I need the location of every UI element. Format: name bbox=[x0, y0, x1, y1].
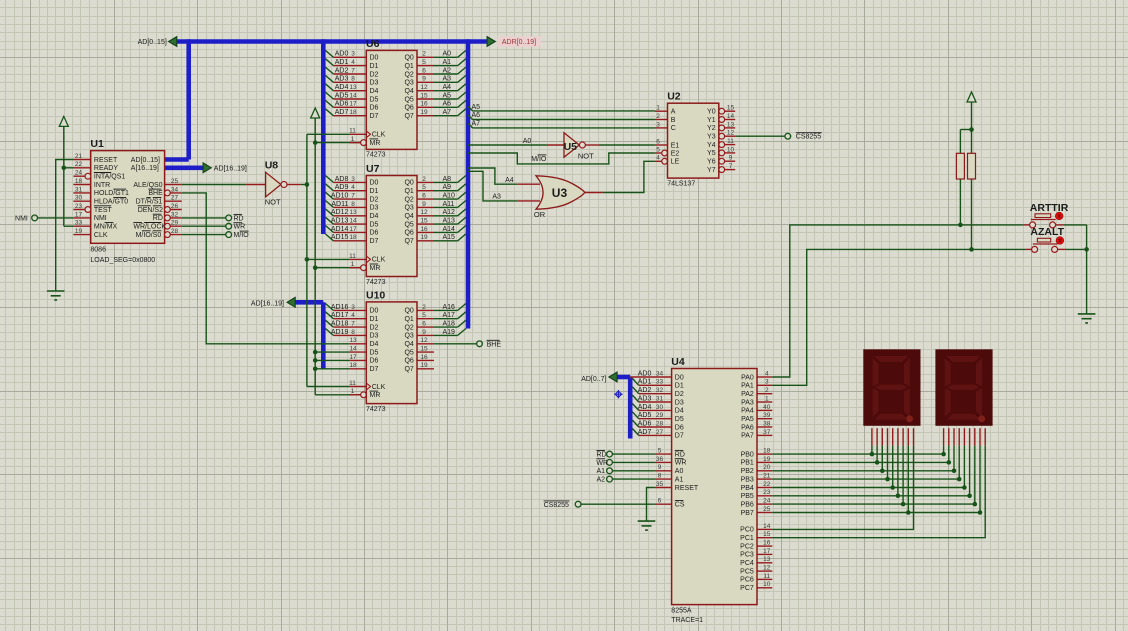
svg-text:35: 35 bbox=[656, 481, 664, 488]
svg-text:12: 12 bbox=[420, 337, 428, 344]
svg-text:5: 5 bbox=[422, 312, 426, 319]
svg-text:BHE: BHE bbox=[487, 341, 502, 348]
svg-text:2: 2 bbox=[422, 176, 426, 183]
svg-text:8086: 8086 bbox=[90, 247, 106, 254]
svg-text:31: 31 bbox=[656, 395, 664, 402]
svg-text:39: 39 bbox=[763, 412, 771, 419]
svg-text:RD: RD bbox=[675, 451, 685, 458]
svg-text:16: 16 bbox=[763, 540, 771, 547]
svg-text:Q7: Q7 bbox=[404, 238, 413, 245]
svg-text:AD19: AD19 bbox=[331, 329, 349, 336]
svg-text:ALE/QS0: ALE/QS0 bbox=[133, 182, 162, 189]
svg-text:D7: D7 bbox=[370, 113, 379, 120]
svg-text:37: 37 bbox=[763, 429, 771, 436]
svg-text:D6: D6 bbox=[675, 424, 684, 431]
svg-text:M/IO: M/IO bbox=[531, 156, 547, 163]
svg-text:A: A bbox=[671, 109, 676, 116]
svg-text:40: 40 bbox=[763, 404, 771, 411]
svg-text:A0: A0 bbox=[443, 51, 452, 58]
svg-text:4: 4 bbox=[351, 312, 355, 319]
svg-text:AD8: AD8 bbox=[335, 176, 349, 183]
svg-text:A1: A1 bbox=[443, 59, 452, 66]
svg-text:25: 25 bbox=[171, 178, 179, 185]
svg-text:C: C bbox=[671, 125, 676, 132]
svg-text:4: 4 bbox=[765, 370, 769, 377]
svg-text:A19: A19 bbox=[443, 329, 456, 336]
svg-text:A7: A7 bbox=[472, 121, 481, 128]
svg-text:24: 24 bbox=[75, 170, 83, 177]
svg-text:7: 7 bbox=[351, 67, 355, 74]
svg-text:27: 27 bbox=[171, 195, 179, 202]
svg-text:74LS137: 74LS137 bbox=[667, 180, 695, 187]
svg-text:READY: READY bbox=[94, 165, 118, 172]
svg-text:MN/MX: MN/MX bbox=[94, 224, 118, 231]
svg-text:RD: RD bbox=[596, 452, 606, 459]
svg-text:A2: A2 bbox=[596, 477, 605, 484]
svg-text:A11: A11 bbox=[443, 201, 455, 208]
svg-text:11: 11 bbox=[349, 128, 356, 135]
svg-text:PB5: PB5 bbox=[741, 493, 754, 500]
svg-text:U6: U6 bbox=[366, 38, 380, 50]
svg-text:A2: A2 bbox=[443, 67, 452, 74]
svg-text:AD5: AD5 bbox=[335, 92, 349, 99]
svg-text:2: 2 bbox=[422, 51, 426, 58]
svg-text:NMI: NMI bbox=[15, 215, 28, 222]
svg-text:Q7: Q7 bbox=[404, 366, 413, 373]
svg-text:4: 4 bbox=[656, 155, 660, 162]
svg-text:D0: D0 bbox=[370, 308, 379, 315]
svg-text:Y2: Y2 bbox=[707, 125, 716, 132]
svg-text:RESET: RESET bbox=[675, 485, 699, 492]
svg-text:A5: A5 bbox=[443, 92, 452, 99]
svg-text:AD0: AD0 bbox=[335, 51, 349, 58]
svg-text:INTR: INTR bbox=[94, 182, 110, 189]
svg-text:PC4: PC4 bbox=[740, 560, 754, 567]
svg-text:D1: D1 bbox=[370, 316, 379, 323]
svg-text:21: 21 bbox=[763, 473, 771, 480]
svg-text:AD2: AD2 bbox=[335, 67, 349, 74]
svg-text:16: 16 bbox=[420, 226, 428, 233]
svg-text:A[16..19]: A[16..19] bbox=[131, 165, 159, 172]
svg-text:MR: MR bbox=[370, 392, 381, 399]
svg-text:Q1: Q1 bbox=[404, 188, 413, 195]
svg-text:PC2: PC2 bbox=[740, 543, 754, 550]
svg-text:11: 11 bbox=[727, 138, 734, 145]
svg-text:12: 12 bbox=[727, 130, 735, 137]
svg-text:3: 3 bbox=[351, 304, 355, 311]
svg-text:9: 9 bbox=[422, 201, 426, 208]
svg-text:A8: A8 bbox=[443, 176, 452, 183]
svg-text:14: 14 bbox=[727, 113, 735, 120]
svg-text:A15: A15 bbox=[443, 234, 456, 241]
svg-text:Q7: Q7 bbox=[404, 113, 413, 120]
svg-text:CS: CS bbox=[675, 502, 685, 509]
svg-text:PB0: PB0 bbox=[741, 451, 754, 458]
svg-text:HLDA/GT0: HLDA/GT0 bbox=[94, 199, 128, 206]
svg-text:AD[0..15]: AD[0..15] bbox=[131, 157, 160, 164]
svg-text:D1: D1 bbox=[370, 63, 379, 70]
svg-text:A14: A14 bbox=[443, 226, 456, 233]
svg-text:A17: A17 bbox=[443, 312, 456, 319]
svg-text:RESET: RESET bbox=[94, 157, 118, 164]
svg-text:D0: D0 bbox=[370, 180, 379, 187]
svg-text:A6: A6 bbox=[443, 101, 452, 108]
svg-text:Q6: Q6 bbox=[404, 230, 413, 237]
svg-text:AD5: AD5 bbox=[638, 412, 652, 419]
svg-text:Q2: Q2 bbox=[404, 196, 413, 203]
svg-text:3: 3 bbox=[765, 379, 769, 386]
svg-text:B: B bbox=[671, 117, 676, 124]
svg-text:A3: A3 bbox=[443, 76, 452, 83]
svg-text:Q6: Q6 bbox=[404, 105, 413, 112]
svg-text:NOT: NOT bbox=[265, 198, 281, 207]
svg-text:PC0: PC0 bbox=[740, 527, 754, 534]
svg-text:AD14: AD14 bbox=[331, 226, 349, 233]
svg-text:AD9: AD9 bbox=[335, 184, 349, 191]
svg-text:A16: A16 bbox=[443, 304, 456, 311]
svg-text:LOAD_SEG=0x0800: LOAD_SEG=0x0800 bbox=[90, 257, 155, 264]
svg-text:AD7: AD7 bbox=[335, 109, 349, 116]
svg-text:DT/R/S1: DT/R/S1 bbox=[136, 199, 163, 206]
svg-text:A13: A13 bbox=[443, 218, 456, 225]
svg-text:D3: D3 bbox=[370, 333, 379, 340]
svg-text:32: 32 bbox=[656, 387, 664, 394]
svg-text:28: 28 bbox=[656, 420, 664, 427]
svg-text:19: 19 bbox=[420, 109, 428, 116]
svg-text:AD3: AD3 bbox=[638, 395, 652, 402]
svg-text:Q0: Q0 bbox=[404, 55, 413, 62]
svg-text:17: 17 bbox=[349, 226, 357, 233]
svg-text:33: 33 bbox=[656, 379, 664, 386]
svg-text:E1: E1 bbox=[671, 142, 680, 149]
svg-text:18: 18 bbox=[763, 448, 771, 455]
svg-text:Q1: Q1 bbox=[404, 316, 413, 323]
svg-text:34: 34 bbox=[171, 186, 179, 193]
svg-text:D7: D7 bbox=[370, 238, 379, 245]
svg-text:Q3: Q3 bbox=[404, 80, 413, 87]
svg-text:LE: LE bbox=[671, 159, 680, 166]
svg-text:5: 5 bbox=[656, 146, 660, 153]
svg-text:AD2: AD2 bbox=[638, 387, 652, 394]
svg-text:D3: D3 bbox=[675, 399, 684, 406]
svg-text:NOT: NOT bbox=[578, 152, 594, 161]
svg-text:1: 1 bbox=[351, 261, 355, 268]
svg-text:D7: D7 bbox=[675, 433, 684, 440]
svg-text:2: 2 bbox=[422, 304, 426, 311]
svg-text:2: 2 bbox=[765, 387, 769, 394]
svg-text:CLK: CLK bbox=[94, 232, 108, 239]
svg-text:30: 30 bbox=[75, 195, 83, 202]
svg-text:PC1: PC1 bbox=[740, 535, 754, 542]
svg-text:A0: A0 bbox=[523, 138, 532, 145]
svg-text:7: 7 bbox=[351, 321, 355, 328]
svg-text:D5: D5 bbox=[370, 349, 379, 356]
svg-text:D3: D3 bbox=[370, 80, 379, 87]
svg-text:ADR[0..19]: ADR[0..19] bbox=[502, 39, 536, 46]
svg-text:23: 23 bbox=[75, 203, 83, 210]
svg-text:D0: D0 bbox=[370, 55, 379, 62]
svg-text:14: 14 bbox=[763, 523, 771, 530]
svg-text:AD15: AD15 bbox=[331, 234, 349, 241]
svg-text:D4: D4 bbox=[370, 88, 379, 95]
svg-text:A12: A12 bbox=[443, 209, 456, 216]
svg-text:PB6: PB6 bbox=[741, 501, 754, 508]
svg-text:AD[0..15]: AD[0..15] bbox=[138, 39, 167, 46]
svg-text:Y1: Y1 bbox=[707, 117, 716, 124]
svg-text:21: 21 bbox=[75, 153, 83, 160]
svg-text:29: 29 bbox=[656, 412, 664, 419]
svg-text:Y3: Y3 bbox=[707, 134, 716, 141]
svg-text:8: 8 bbox=[351, 76, 355, 83]
svg-text:8255A: 8255A bbox=[671, 607, 692, 614]
svg-text:Q5: Q5 bbox=[404, 96, 413, 103]
svg-text:PB4: PB4 bbox=[741, 485, 754, 492]
svg-text:Q5: Q5 bbox=[404, 221, 413, 228]
svg-text:AD1: AD1 bbox=[638, 379, 652, 386]
svg-text:1: 1 bbox=[351, 388, 355, 395]
svg-text:D4: D4 bbox=[370, 213, 379, 220]
svg-text:NMI: NMI bbox=[94, 215, 107, 222]
svg-text:23: 23 bbox=[763, 489, 771, 496]
svg-text:10: 10 bbox=[727, 146, 735, 153]
svg-text:Q3: Q3 bbox=[404, 205, 413, 212]
svg-text:22: 22 bbox=[75, 161, 83, 168]
svg-text:D6: D6 bbox=[370, 358, 379, 365]
svg-text:PB3: PB3 bbox=[741, 476, 754, 483]
svg-text:RD: RD bbox=[153, 215, 163, 222]
svg-text:74273: 74273 bbox=[366, 279, 386, 286]
svg-text:PC6: PC6 bbox=[740, 577, 754, 584]
svg-text:BHE: BHE bbox=[148, 190, 163, 197]
svg-text:D1: D1 bbox=[370, 188, 379, 195]
svg-text:CS8255: CS8255 bbox=[544, 502, 569, 509]
svg-text:AZALT: AZALT bbox=[1030, 226, 1064, 238]
svg-text:10: 10 bbox=[763, 581, 771, 588]
svg-text:Y6: Y6 bbox=[707, 159, 716, 166]
svg-text:PC5: PC5 bbox=[740, 568, 754, 575]
svg-text:D4: D4 bbox=[675, 408, 684, 415]
svg-text:AD13: AD13 bbox=[331, 218, 349, 225]
svg-text:AD0: AD0 bbox=[638, 370, 652, 377]
svg-text:AD16: AD16 bbox=[331, 304, 349, 311]
svg-text:D2: D2 bbox=[370, 71, 379, 78]
svg-text:U8: U8 bbox=[265, 160, 279, 172]
svg-text:D4: D4 bbox=[370, 341, 379, 348]
svg-text:U10: U10 bbox=[366, 289, 385, 301]
svg-text:A1: A1 bbox=[675, 476, 684, 483]
svg-text:A10: A10 bbox=[443, 193, 456, 200]
svg-text:AD[16..19]: AD[16..19] bbox=[251, 301, 284, 308]
svg-text:Y7: Y7 bbox=[707, 167, 716, 174]
svg-text:29: 29 bbox=[171, 220, 179, 227]
svg-text:D3: D3 bbox=[370, 205, 379, 212]
svg-text:PA7: PA7 bbox=[741, 433, 754, 440]
svg-text:U5: U5 bbox=[564, 141, 578, 153]
svg-text:OR: OR bbox=[534, 210, 546, 219]
svg-text:MR: MR bbox=[370, 140, 381, 147]
svg-text:1: 1 bbox=[765, 395, 769, 402]
svg-text:AD12: AD12 bbox=[331, 209, 349, 216]
svg-text:AD10: AD10 bbox=[331, 193, 349, 200]
svg-text:D2: D2 bbox=[370, 196, 379, 203]
svg-text:D2: D2 bbox=[370, 324, 379, 331]
svg-text:17: 17 bbox=[75, 211, 83, 218]
svg-text:9: 9 bbox=[729, 155, 733, 162]
svg-text:14: 14 bbox=[349, 92, 357, 99]
svg-text:CLK: CLK bbox=[372, 384, 386, 391]
svg-text:D5: D5 bbox=[370, 221, 379, 228]
svg-text:1: 1 bbox=[656, 105, 660, 112]
svg-text:8: 8 bbox=[658, 473, 662, 480]
svg-text:11: 11 bbox=[349, 253, 356, 260]
svg-text:D6: D6 bbox=[370, 230, 379, 237]
svg-text:CS8255: CS8255 bbox=[796, 134, 821, 141]
svg-text:16: 16 bbox=[420, 354, 428, 361]
svg-text:17: 17 bbox=[349, 101, 357, 108]
svg-text:14: 14 bbox=[349, 346, 357, 353]
svg-text:D5: D5 bbox=[370, 96, 379, 103]
svg-text:19: 19 bbox=[420, 234, 428, 241]
svg-text:19: 19 bbox=[75, 228, 83, 235]
svg-text:3: 3 bbox=[351, 51, 355, 58]
svg-text:PB7: PB7 bbox=[741, 510, 754, 517]
svg-text:6: 6 bbox=[422, 193, 426, 200]
svg-text:U1: U1 bbox=[90, 138, 104, 150]
svg-text:WR: WR bbox=[675, 460, 687, 467]
svg-text:AD18: AD18 bbox=[331, 321, 349, 328]
svg-text:INTA/QS1: INTA/QS1 bbox=[94, 174, 125, 181]
svg-text:8: 8 bbox=[351, 329, 355, 336]
svg-text:15: 15 bbox=[420, 218, 428, 225]
svg-text:9: 9 bbox=[422, 329, 426, 336]
svg-text:17: 17 bbox=[763, 548, 771, 555]
svg-text:17: 17 bbox=[349, 354, 357, 361]
svg-text:M/IO/S0: M/IO/S0 bbox=[136, 232, 162, 239]
svg-text:D0: D0 bbox=[675, 374, 684, 381]
svg-text:1: 1 bbox=[351, 136, 355, 143]
svg-text:74273: 74273 bbox=[366, 406, 386, 413]
svg-text:4: 4 bbox=[351, 184, 355, 191]
svg-text:WR: WR bbox=[234, 224, 246, 231]
svg-text:6: 6 bbox=[422, 321, 426, 328]
svg-text:AD11: AD11 bbox=[331, 201, 348, 208]
svg-text:AD1: AD1 bbox=[335, 59, 349, 66]
svg-text:Q2: Q2 bbox=[404, 324, 413, 331]
svg-text:PA6: PA6 bbox=[741, 424, 754, 431]
svg-text:25: 25 bbox=[763, 506, 771, 513]
svg-text:27: 27 bbox=[656, 429, 664, 436]
svg-text:13: 13 bbox=[349, 84, 357, 91]
svg-text:PA4: PA4 bbox=[741, 408, 754, 415]
svg-text:20: 20 bbox=[763, 464, 771, 471]
svg-text:Q0: Q0 bbox=[404, 180, 413, 187]
svg-text:22: 22 bbox=[763, 481, 771, 488]
svg-text:D1: D1 bbox=[675, 383, 684, 390]
svg-text:PA2: PA2 bbox=[741, 391, 754, 398]
svg-text:19: 19 bbox=[763, 456, 771, 463]
svg-text:D7: D7 bbox=[370, 366, 379, 373]
svg-text:PB1: PB1 bbox=[741, 460, 754, 467]
svg-text:A4: A4 bbox=[443, 84, 452, 91]
svg-text:A6: A6 bbox=[472, 112, 481, 119]
svg-text:34: 34 bbox=[656, 370, 664, 377]
svg-text:19: 19 bbox=[420, 362, 428, 369]
svg-text:8: 8 bbox=[351, 201, 355, 208]
svg-text:6: 6 bbox=[656, 138, 660, 145]
svg-text:A18: A18 bbox=[443, 321, 456, 328]
svg-text:Y4: Y4 bbox=[707, 142, 716, 149]
svg-text:11: 11 bbox=[349, 380, 356, 387]
svg-text:Q4: Q4 bbox=[404, 341, 413, 348]
svg-text:Q1: Q1 bbox=[404, 63, 413, 70]
svg-text:18: 18 bbox=[75, 178, 83, 185]
svg-text:38: 38 bbox=[763, 420, 771, 427]
svg-text:6: 6 bbox=[422, 67, 426, 74]
svg-text:TRACE=1: TRACE=1 bbox=[671, 617, 703, 624]
svg-text:Q3: Q3 bbox=[404, 333, 413, 340]
svg-text:15: 15 bbox=[763, 531, 771, 538]
svg-text:AD4: AD4 bbox=[638, 404, 652, 411]
svg-text:14: 14 bbox=[349, 218, 357, 225]
svg-text:MR: MR bbox=[370, 265, 381, 272]
svg-text:AD7: AD7 bbox=[638, 429, 652, 436]
svg-text:M/IO: M/IO bbox=[234, 232, 250, 239]
svg-text:D2: D2 bbox=[675, 391, 684, 398]
svg-text:Q6: Q6 bbox=[404, 358, 413, 365]
svg-text:13: 13 bbox=[727, 121, 735, 128]
svg-text:U3: U3 bbox=[552, 186, 568, 200]
svg-text:RD: RD bbox=[234, 215, 244, 222]
svg-text:5: 5 bbox=[422, 184, 426, 191]
svg-text:32: 32 bbox=[171, 211, 179, 218]
svg-text:AD17: AD17 bbox=[331, 312, 349, 319]
svg-text:Q5: Q5 bbox=[404, 349, 413, 356]
svg-text:A4: A4 bbox=[505, 177, 514, 184]
svg-text:12: 12 bbox=[420, 209, 428, 216]
svg-text:24: 24 bbox=[763, 498, 771, 505]
svg-text:WR/LOCK: WR/LOCK bbox=[133, 224, 166, 231]
svg-text:7: 7 bbox=[729, 163, 733, 170]
svg-text:13: 13 bbox=[349, 337, 357, 344]
svg-text:15: 15 bbox=[727, 105, 735, 112]
svg-text:11: 11 bbox=[763, 573, 770, 580]
svg-text:36: 36 bbox=[656, 456, 664, 463]
svg-text:Y0: Y0 bbox=[707, 109, 716, 116]
svg-text:13: 13 bbox=[763, 556, 771, 563]
svg-text:ARTTIR: ARTTIR bbox=[1030, 202, 1069, 214]
svg-text:18: 18 bbox=[349, 234, 357, 241]
svg-text:4: 4 bbox=[351, 59, 355, 66]
svg-text:DEN/S2: DEN/S2 bbox=[138, 207, 163, 214]
svg-text:A7: A7 bbox=[443, 109, 452, 116]
svg-text:9: 9 bbox=[422, 76, 426, 83]
svg-text:18: 18 bbox=[349, 362, 357, 369]
svg-text:5: 5 bbox=[422, 59, 426, 66]
svg-text:A5: A5 bbox=[472, 104, 481, 111]
svg-text:16: 16 bbox=[420, 101, 428, 108]
svg-text:AD6: AD6 bbox=[638, 420, 652, 427]
svg-text:A0: A0 bbox=[675, 468, 684, 475]
svg-text:12: 12 bbox=[420, 84, 428, 91]
svg-text:Q0: Q0 bbox=[404, 308, 413, 315]
svg-text:U4: U4 bbox=[671, 356, 685, 368]
svg-text:PA3: PA3 bbox=[741, 399, 754, 406]
svg-text:WR: WR bbox=[596, 460, 608, 467]
svg-text:3: 3 bbox=[351, 176, 355, 183]
svg-text:30: 30 bbox=[656, 404, 664, 411]
svg-text:18: 18 bbox=[349, 109, 357, 116]
svg-text:AD4: AD4 bbox=[335, 84, 349, 91]
